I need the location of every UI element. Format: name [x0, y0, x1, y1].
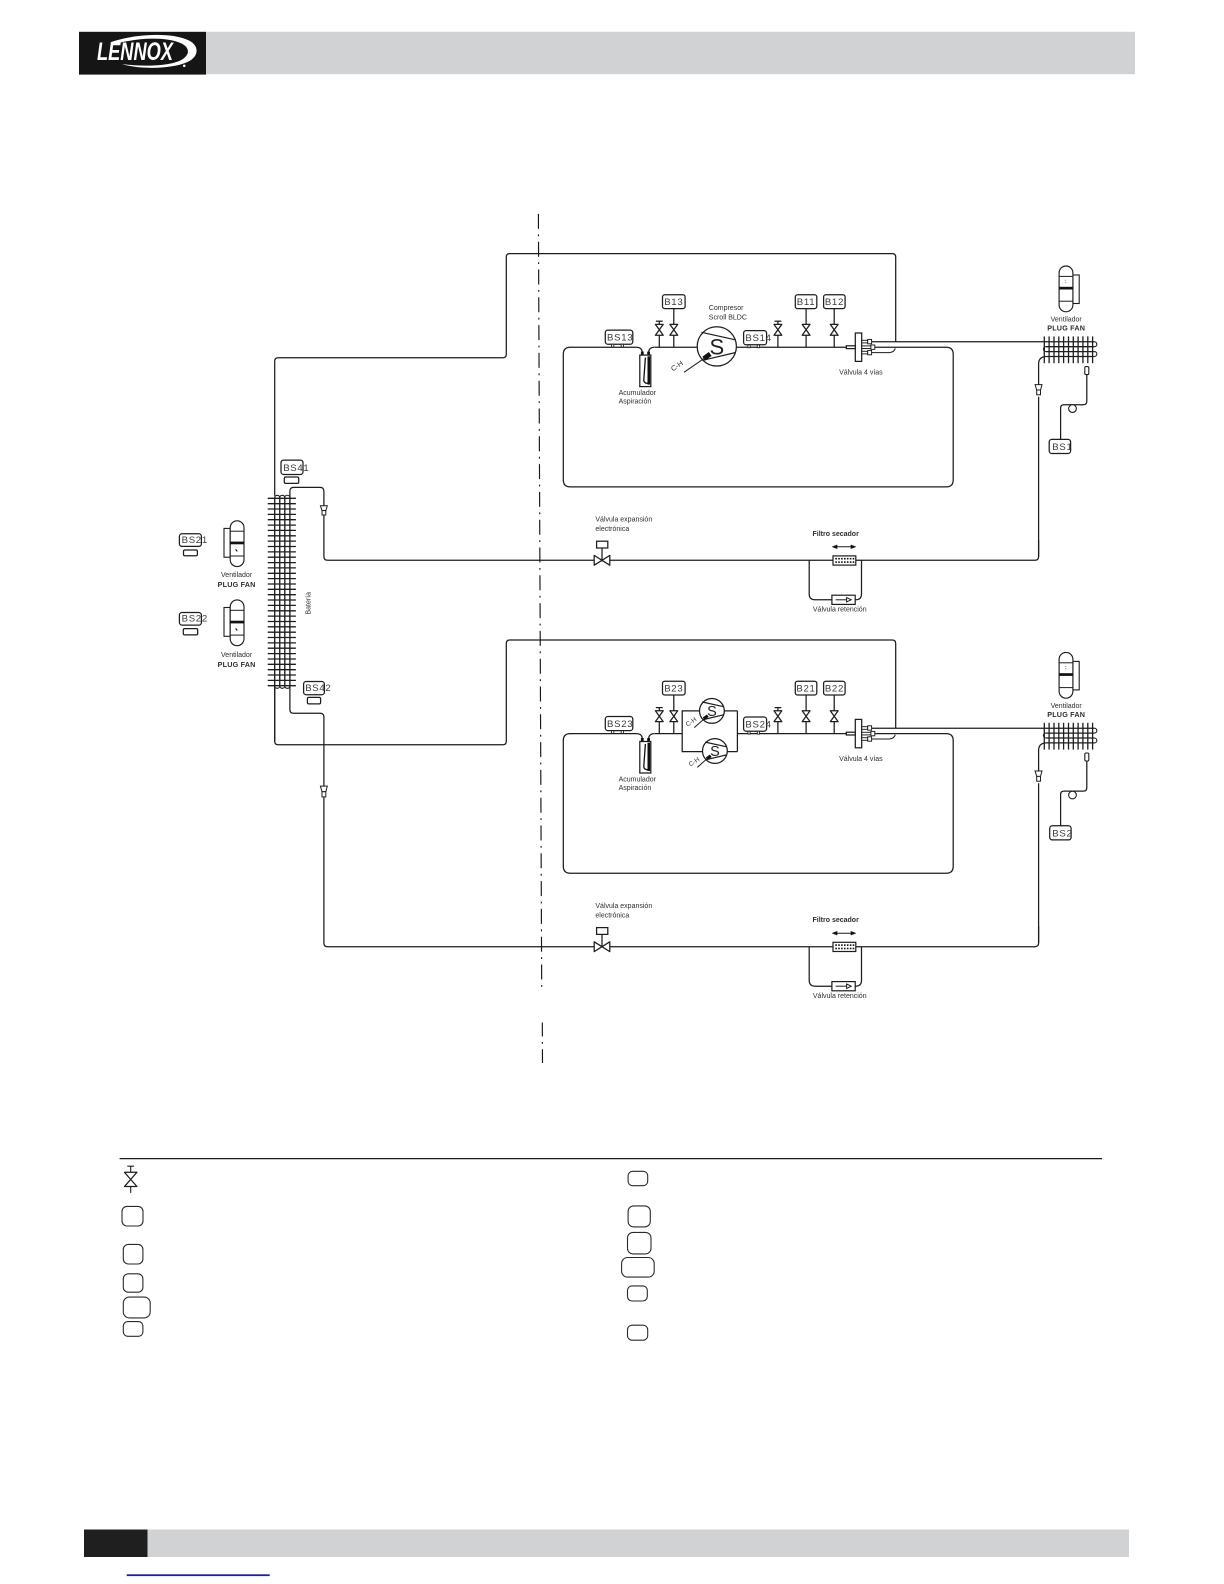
svg-text:S: S — [709, 335, 724, 360]
suction accumulator circuit 1 — [637, 347, 655, 386]
condenser plug fan circuit 2 — [1059, 652, 1079, 698]
tandem branch pipes circuit 2 — [682, 711, 737, 752]
pressure switch BS1 — [1049, 439, 1072, 453]
svg-text:LENNOX: LENNOX — [97, 38, 174, 66]
unit split centerline (dash-dot) — [538, 214, 541, 988]
legend box condenser — [123, 1244, 143, 1264]
svg-text:BS21: BS21 — [182, 535, 208, 546]
svg-text:Válvula retención: Válvula retención — [813, 607, 867, 614]
pressure transducer B23 — [663, 681, 686, 695]
distributor circuit 2 — [320, 786, 327, 797]
4-way valve bottom port pipe circuit 2 — [872, 735, 896, 739]
supply fan 2 label — [218, 652, 256, 669]
svg-text:Aspiración: Aspiración — [619, 399, 652, 406]
suction pipe outer loop circuit 2 — [275, 640, 896, 745]
fan sensor BS21 — [179, 534, 207, 556]
coil sensor BS41 — [281, 460, 309, 483]
shutoff valve to B12 circuit 1 — [830, 309, 838, 348]
footer hyperlink underline — [127, 1574, 270, 1576]
coil sensor BS42 — [304, 682, 332, 704]
legend box sensor BS4 — [622, 1258, 655, 1278]
evaporator liquid down pipe circuit 2 — [290, 686, 324, 786]
svg-text:Scroll BLDC: Scroll BLDC — [709, 314, 747, 321]
compressor scroll BLDC 2B — [703, 739, 728, 764]
liquid line circuit 2 — [324, 797, 1039, 947]
sight glass circuit 2 — [1069, 791, 1077, 799]
svg-text:B12: B12 — [825, 297, 844, 308]
legend box expansion valve — [123, 1297, 150, 1318]
condenser outlet pipe circuit 1 — [1039, 357, 1046, 385]
4-way reversing valve circuit 2 — [846, 719, 875, 747]
expansion valve label circuit 2 — [595, 903, 652, 920]
sensor pocket circuit 1 — [1085, 367, 1089, 375]
evaporator liquid header pipe circuit 1 — [290, 487, 324, 505]
circuit 2 check valve bypass pipe — [809, 947, 861, 987]
svg-text:Válvula expansión: Válvula expansión — [595, 517, 652, 524]
footer gray bar — [148, 1530, 1130, 1558]
evaporator coil Bateria — [268, 495, 296, 688]
svg-text:BS2: BS2 — [1052, 828, 1072, 839]
sensor capillary wire circuit 1 — [1061, 375, 1087, 440]
legend box compressor — [122, 1206, 143, 1226]
fan sensor BS22 — [179, 613, 207, 635]
svg-text:BS42: BS42 — [305, 683, 331, 694]
hot-gas line to condenser circuit 1 — [872, 341, 1095, 343]
liquid riser pipe circuit 1 — [1038, 397, 1040, 557]
svg-text:Filtro secador: Filtro secador — [813, 531, 860, 538]
shutoff valve to B21 circuit 2 — [802, 695, 810, 734]
legend box sensor BS3 — [628, 1232, 652, 1254]
circuit 2 check valve — [832, 982, 855, 991]
4-way reversing valve circuit 1 — [846, 333, 875, 361]
evaporator suction stub circuit 2 — [274, 686, 276, 741]
shutoff valve to B22 circuit 2 — [830, 695, 838, 734]
legend box filter — [123, 1322, 143, 1337]
circuit 2 filter drier — [832, 931, 857, 952]
svg-text:BS23: BS23 — [607, 719, 633, 730]
C-H terminal label compressor 2B — [688, 756, 708, 768]
condenser plug fan circuit 1 — [1059, 266, 1079, 312]
distributor circuit 1 — [320, 506, 327, 515]
liquid riser pipe circuit 2 — [1038, 783, 1040, 943]
shutoff valve to B13 circuit 1 — [670, 309, 678, 348]
liquid line strainer circuit 2 — [1035, 771, 1042, 781]
pressure transducer B11 — [795, 295, 817, 309]
supply plug fan 1 — [224, 521, 244, 567]
pressure transducer B12 — [824, 295, 846, 309]
svg-text:PLUG FAN: PLUG FAN — [1047, 324, 1085, 333]
svg-text:PLUG FAN: PLUG FAN — [218, 660, 256, 669]
svg-text:B23: B23 — [664, 684, 683, 695]
pressure transducer B21 — [795, 681, 817, 695]
Lennox logo — [79, 32, 206, 75]
electronic expansion valve circuit 2 — [594, 928, 610, 952]
legend service valve symbol — [125, 1166, 137, 1193]
svg-text:Ventilador: Ventilador — [221, 572, 253, 579]
compressor rail pipe right circuit 2 — [737, 733, 846, 735]
suction accumulator circuit 2 — [637, 734, 655, 773]
svg-text:Válvula 4 vías: Válvula 4 vías — [839, 756, 883, 763]
unit split centerline lower segment — [541, 1023, 543, 1064]
footer black tab — [84, 1530, 148, 1558]
discharge sensor BS14 — [744, 331, 772, 348]
suction service valve circuit 2 — [655, 708, 663, 734]
suction pipe outer loop circuit 1 — [275, 254, 896, 496]
svg-text:Ventilador: Ventilador — [221, 652, 253, 659]
circuit 1 check valve — [832, 595, 855, 604]
svg-text:S: S — [707, 704, 717, 720]
pressure transducer B13 — [663, 295, 686, 309]
condenser fan label circuit 1 — [1047, 317, 1085, 333]
circuit 1 check valve bypass pipe — [809, 560, 861, 600]
svg-text:electrónica: electrónica — [595, 913, 629, 920]
C-H terminal label compressor 1 — [669, 358, 705, 373]
compressor scroll BLDC 2A — [700, 699, 725, 724]
sight glass circuit 1 — [1069, 405, 1077, 413]
legend box pressure switch — [628, 1325, 648, 1340]
discharge sensor BS24 — [744, 717, 772, 734]
legend box evaporator — [123, 1274, 143, 1292]
suction return loop circuit 2 — [563, 734, 953, 874]
supply fan 1 label — [218, 572, 256, 589]
svg-text:Válvula expansión: Válvula expansión — [595, 903, 652, 910]
discharge service valve circuit 1 — [774, 321, 782, 347]
header gray banner — [206, 32, 1135, 74]
compressor rail pipe circuit 1 — [655, 346, 847, 348]
supply plug fan 2 — [224, 600, 244, 646]
circuit 1 filter drier — [832, 545, 857, 566]
suction return loop circuit 1 — [563, 347, 953, 487]
compressor scroll BLDC circuit 1 — [697, 327, 736, 366]
svg-text:Válvula 4 vías: Válvula 4 vías — [839, 370, 883, 377]
sensor pocket circuit 2 — [1085, 753, 1089, 761]
electronic expansion valve circuit 1 — [594, 541, 610, 565]
pressure transducer B22 — [824, 681, 846, 695]
svg-text:electrónica: electrónica — [595, 526, 629, 533]
svg-text:BS24: BS24 — [745, 720, 771, 731]
condenser outlet pipe circuit 2 — [1039, 743, 1046, 771]
condenser fan label circuit 2 — [1047, 703, 1085, 719]
svg-text:S: S — [710, 744, 720, 760]
svg-text:Ventilador: Ventilador — [1051, 703, 1083, 710]
svg-text:B13: B13 — [664, 297, 683, 308]
svg-text:B21: B21 — [796, 684, 815, 695]
svg-text:Válvula retención: Válvula retención — [813, 993, 867, 1000]
svg-text:Acumulador: Acumulador — [619, 390, 657, 397]
accumulator label circuit 2 — [619, 777, 657, 792]
pressure switch BS2 — [1050, 826, 1073, 840]
legend box sensor BS2 — [628, 1286, 648, 1301]
svg-text:BS41: BS41 — [283, 463, 309, 474]
4-way valve bottom port pipe circuit 1 — [872, 348, 896, 352]
liquid line circuit 1 — [324, 515, 1039, 560]
svg-text:Acumulador: Acumulador — [619, 777, 657, 784]
svg-text:B22: B22 — [825, 684, 844, 695]
discharge service valve circuit 2 — [774, 708, 782, 734]
legend box sensor B3 — [628, 1206, 650, 1227]
svg-text:Batería: Batería — [306, 592, 313, 615]
legend divider rule — [120, 1158, 1102, 1160]
svg-text:Compresor: Compresor — [709, 305, 744, 312]
shutoff valve to B23 circuit 2 — [670, 695, 678, 734]
svg-text:B11: B11 — [797, 297, 815, 308]
suction sensor BS13 — [605, 330, 633, 347]
accumulator label circuit 1 — [619, 390, 657, 405]
condenser coil circuit 1 — [1043, 336, 1096, 363]
svg-text:Ventilador: Ventilador — [1051, 317, 1083, 324]
hot-gas line to condenser circuit 2 — [872, 727, 1095, 729]
svg-text:BS1: BS1 — [1052, 442, 1072, 453]
sensor capillary wire circuit 2 — [1061, 761, 1087, 826]
suction service valve circuit 1 — [655, 321, 663, 347]
svg-text:Aspiración: Aspiración — [619, 785, 652, 792]
expansion valve label circuit 1 — [595, 517, 652, 534]
legend box sensor B1 — [628, 1171, 648, 1185]
svg-text:BS22: BS22 — [182, 614, 208, 625]
compressor label circuit 1 — [709, 305, 747, 321]
C-H terminal label compressor 2A — [685, 716, 705, 728]
condenser coil circuit 2 — [1043, 723, 1096, 750]
svg-text:PLUG FAN: PLUG FAN — [1047, 710, 1085, 719]
liquid line strainer circuit 1 — [1035, 385, 1042, 395]
shutoff valve to B11 circuit 1 — [802, 309, 810, 348]
suction sensor BS23 — [605, 717, 633, 734]
svg-text:BS13: BS13 — [607, 333, 633, 344]
compressor rail pipe left circuit 2 — [655, 733, 683, 735]
svg-text:BS14: BS14 — [745, 333, 771, 344]
svg-text:PLUG FAN: PLUG FAN — [218, 580, 256, 589]
svg-text:Filtro secador: Filtro secador — [813, 917, 860, 924]
